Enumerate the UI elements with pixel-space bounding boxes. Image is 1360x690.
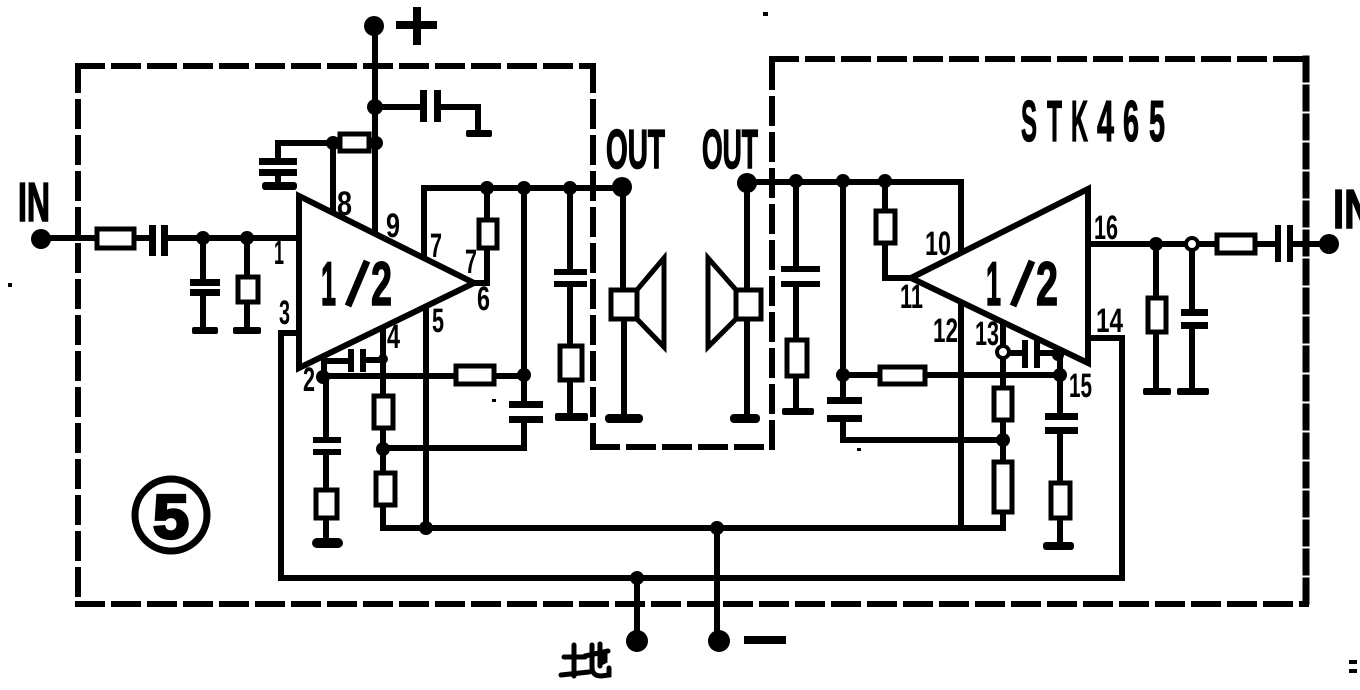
ground bar pin8 bypass: [262, 182, 297, 190]
junction pin5 rail: [419, 521, 433, 535]
capacitor zobel left plates: [554, 269, 587, 275]
svg-text:IN: IN: [18, 171, 50, 233]
wire zobel left: [567, 188, 573, 413]
wire output node left: [383, 188, 524, 448]
svg-text:T: T: [1047, 89, 1062, 154]
ground bar input shunt cap left: [192, 327, 218, 334]
svg-text:4: 4: [387, 318, 400, 356]
wire output node right: [843, 181, 1003, 440]
svg-text:7: 7: [465, 243, 477, 281]
ground bar input shunt cap right: [1177, 388, 1209, 395]
svg-text:16: 16: [1094, 209, 1118, 247]
resistor pin15 ground: [1051, 483, 1070, 518]
junction output feedback left: [517, 368, 531, 382]
wire input left: [41, 235, 299, 241]
wire input shunt cap branch: [200, 238, 206, 327]
terminal ground: [626, 630, 648, 652]
label 1/2 right: [986, 250, 1058, 319]
ground bar speaker right: [730, 414, 760, 423]
wire pin2 pin4 cap: [324, 360, 383, 361]
junction bus pin11 resistor: [878, 174, 892, 188]
svg-text:12: 12: [933, 312, 958, 350]
wire pin15 ground branch: [1057, 350, 1063, 542]
wire pin8: [330, 143, 336, 214]
svg-text:1: 1: [321, 250, 336, 319]
op-amp U1a left half: [299, 196, 474, 368]
svg-text:11: 11: [900, 278, 923, 316]
junction pin15 node: [1053, 368, 1067, 382]
svg-text:4: 4: [1097, 89, 1114, 154]
junction bus zobel right: [789, 174, 803, 188]
resistor input shunt right: [1148, 298, 1166, 332]
svg-text:5: 5: [153, 483, 189, 552]
terminal positive supply: [364, 16, 384, 36]
resistor zobel right: [787, 340, 807, 376]
module boundary dashed outline (STK465 hybrid): [78, 59, 1306, 604]
resistor pin13 lower: [994, 462, 1012, 512]
svg-text:6: 6: [1123, 89, 1139, 154]
junction ground rail: [630, 571, 644, 585]
output bus left: [424, 185, 622, 191]
junction pin4 node: [376, 442, 390, 456]
svg-text:2: 2: [371, 250, 392, 319]
speaker right: [708, 258, 761, 347]
resistor feedback right: [880, 367, 925, 384]
junction pin9 resistor: [369, 136, 383, 150]
resistor input shunt left: [238, 277, 258, 302]
resistor pin2 ground left: [316, 490, 337, 518]
output bus right: [747, 182, 961, 252]
svg-text:3: 3: [279, 294, 290, 332]
capacitor input coupling right plates: [1275, 225, 1281, 262]
ground bar pin15 branch: [1043, 542, 1074, 550]
resistor pin4 lower: [376, 473, 395, 505]
resistor input series right: [1217, 235, 1255, 253]
label 1/2 left: [321, 250, 392, 319]
junction bus output left: [517, 181, 531, 195]
terminal negative supply: [708, 630, 730, 652]
svg-text:7: 7: [430, 227, 442, 265]
svg-text:5: 5: [432, 302, 444, 340]
wire supply decoupling cap: [375, 107, 478, 130]
wire pin7: [421, 188, 427, 259]
wire pin8 bias resistor: [278, 143, 375, 182]
wire pin2 ground branch: [324, 377, 326, 539]
junction input right: [1149, 237, 1163, 251]
speaker left: [611, 258, 664, 347]
figure number circled 5: [135, 479, 207, 552]
wire feedback left: [324, 373, 524, 379]
capacitor input shunt right plates: [1181, 309, 1208, 316]
svg-text:OUT: OUT: [606, 118, 665, 180]
ground bar speaker left: [605, 414, 643, 423]
wire speaker left: [623, 188, 624, 414]
junction bus zobel left: [563, 181, 577, 195]
svg-text:2: 2: [303, 361, 315, 399]
resistor pin13 upper: [994, 388, 1012, 420]
junction pin13 node: [996, 433, 1010, 447]
svg-text:1: 1: [986, 250, 1001, 319]
junction bus output right: [836, 174, 850, 188]
svg-text:1: 1: [274, 234, 284, 272]
ground bar input shunt resistor right: [1143, 388, 1171, 395]
wire pin2: [321, 356, 327, 377]
terminal input left: [31, 229, 51, 249]
capacitor input shunt left plates: [190, 279, 220, 286]
svg-text:5: 5: [1149, 89, 1165, 154]
capacitor feedback right plates: [827, 397, 862, 404]
junction input cap left: [196, 231, 210, 245]
svg-text:6: 6: [477, 280, 490, 318]
wire input right: [1088, 241, 1329, 247]
capacitor input coupling left plates: [149, 225, 156, 256]
wire input right shunt cap: [1189, 244, 1195, 388]
label STK465: [1021, 89, 1165, 154]
svg-text:15: 15: [1069, 367, 1092, 405]
resistor feedback left: [456, 366, 494, 384]
wire feedback right: [843, 372, 1060, 378]
minus symbol: [744, 636, 786, 644]
wire positive supply pin9: [372, 25, 378, 234]
junction bus pin6 resistor: [480, 181, 494, 195]
capacitor zobel right plates: [781, 266, 820, 272]
node pin13 open circle: [997, 346, 1009, 358]
svg-text:14: 14: [1096, 302, 1123, 340]
junction pin4 cap: [378, 354, 388, 364]
wire input shunt resistor branch: [244, 238, 250, 327]
svg-text:8: 8: [337, 185, 352, 223]
ground bar input shunt resistor left: [233, 327, 261, 334]
svg-text:13: 13: [975, 315, 999, 353]
capacitor pin13 pin15 plates: [1022, 340, 1028, 368]
ground bar pin2 branch: [312, 538, 343, 548]
svg-text:2: 2: [1036, 250, 1058, 319]
junction output feedback right: [836, 368, 850, 382]
svg-text:S: S: [1021, 89, 1037, 154]
resistor pin4 upper: [374, 396, 393, 428]
capacitor pin2 ground plates: [313, 437, 341, 443]
resistor zobel left: [560, 346, 582, 380]
wire pin4 chain: [380, 327, 386, 528]
plus symbol: [396, 7, 437, 45]
wire pin13 pin15 cap: [1009, 350, 1060, 356]
svg-text:OUT: OUT: [702, 118, 758, 180]
capacitor pin2 pin4 plates: [348, 349, 354, 372]
svg-text:9: 9: [386, 207, 400, 245]
junction negative rail: [710, 521, 724, 535]
negative rail: [383, 525, 1003, 531]
svg-text:IN: IN: [1333, 178, 1360, 240]
label ground chinese: [561, 644, 609, 676]
wire pin6 bootstrap resistor: [474, 188, 487, 283]
junction pin15 cap edge: [1052, 349, 1064, 361]
resistor pin11 bootstrap: [876, 211, 895, 243]
wire input right shunt resistor: [1153, 244, 1159, 388]
wire pin3 to ground rail: [281, 333, 299, 578]
capacitor pin15 ground plates: [1045, 413, 1078, 420]
ground bar zobel right: [782, 408, 814, 415]
capacitor supply decoupling plates: [420, 90, 427, 122]
capacitor pin8 bypass plates: [259, 158, 297, 165]
ground rail: [281, 338, 1122, 578]
resistor input series left: [97, 229, 134, 248]
wire pin5: [423, 307, 429, 529]
terminal output right: [737, 173, 757, 193]
op-amp U1b right half: [911, 189, 1088, 363]
wire pin11 bootstrap resistor: [885, 181, 911, 278]
terminal input right: [1319, 234, 1339, 254]
junction pin2 node: [316, 370, 330, 384]
wire pin13 chain: [1000, 322, 1006, 528]
ground bar supply decoupling: [466, 130, 492, 137]
terminal output left: [612, 177, 632, 197]
ground bar zobel left: [555, 413, 588, 421]
resistor pin7 bootstrap: [479, 220, 497, 248]
wire speaker right: [744, 183, 750, 414]
wire zobel right: [793, 181, 799, 408]
junction supply cap: [367, 99, 383, 115]
svg-text:10: 10: [925, 225, 951, 263]
resistor pin8 bias: [340, 134, 369, 151]
wire minus terminal: [714, 528, 720, 634]
junction input resistor left: [240, 231, 254, 245]
capacitor feedback left plates: [509, 401, 543, 408]
svg-text:K: K: [1071, 89, 1088, 154]
wire ground terminal: [634, 578, 640, 634]
junction pin8 node: [326, 136, 340, 150]
node input right open circle: [1186, 238, 1198, 250]
wire pin12: [958, 302, 964, 528]
